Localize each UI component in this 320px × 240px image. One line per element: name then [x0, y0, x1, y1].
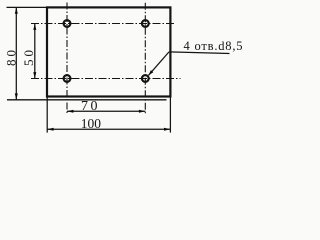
wire: dimension line 70 (horizontal) — [67, 110, 145, 112]
svg-text:70: 70 — [81, 99, 100, 114]
arrowhead dim50 top — [33, 24, 36, 30]
arrowhead dim100 right — [164, 128, 170, 131]
wire: dimension line 100 (horizontal) — [47, 128, 170, 130]
arrowhead dim70 right — [139, 110, 145, 113]
wire: bottom thin extension line under plate — [7, 99, 167, 101]
hole top-left — [64, 20, 71, 27]
wire: top extension line to dim 80 — [7, 6, 48, 8]
arrowhead dim70 left — [67, 110, 73, 113]
wire: dimension line 80 (vertical) — [15, 7, 17, 99]
arrowhead dim80 top — [15, 7, 18, 13]
svg-text:50: 50 — [21, 47, 36, 66]
arrowhead dim50 bottom — [33, 72, 36, 78]
svg-text:4 отв.d8,5: 4 отв.d8,5 — [184, 39, 243, 53]
wire: centerline top hole row (dash-dot) — [31, 23, 176, 25]
wire: centerline bottom hole row (dash-dot) — [31, 78, 181, 80]
node: plate outline (thick rectangle) — [47, 7, 170, 96]
hole top-right — [142, 20, 149, 27]
wire: extension line right for dim 100 — [169, 97, 171, 133]
arrowhead leader at hole — [149, 70, 154, 75]
wire: centerline right hole column (dash-dot) — [144, 3, 146, 114]
wire: dimension line 50 (vertical) — [34, 24, 36, 79]
hole bottom-left — [64, 75, 71, 82]
hole bottom-right — [142, 75, 149, 82]
wire: extension line left for dim 100 — [46, 98, 48, 133]
wire: leader shelf under label — [169, 52, 230, 54]
arrowhead dim80 bottom — [15, 93, 18, 99]
wire: centerline left hole column (dash-dot) — [66, 3, 68, 115]
wire: leader diagonal to bottom-right hole — [149, 52, 170, 75]
svg-text:100: 100 — [81, 116, 102, 131]
arrowhead dim100 left — [47, 128, 53, 131]
svg-text:80: 80 — [3, 47, 18, 66]
